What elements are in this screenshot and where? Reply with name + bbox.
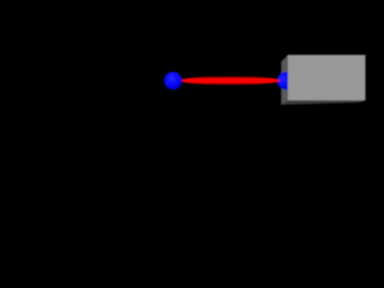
rod (red ellipsoid spring) [181, 76, 280, 85]
wall box left side face [281, 55, 288, 105]
wall box front face [288, 55, 366, 101]
wall box bottom face [281, 100, 365, 104]
ball sphere [164, 72, 182, 90]
anchor ball (hemisphere at wall) [277, 72, 294, 90]
